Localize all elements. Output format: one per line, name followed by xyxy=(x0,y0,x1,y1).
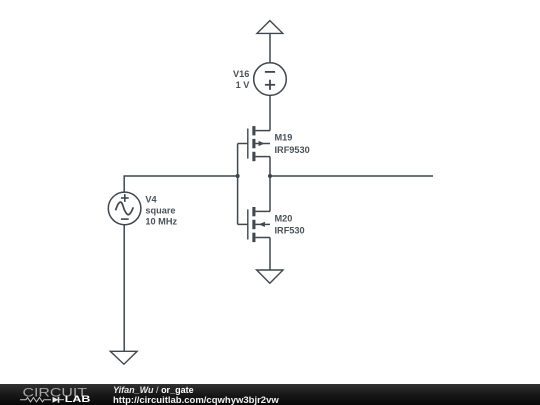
ground (V4) xyxy=(110,351,137,364)
svg-text:square: square xyxy=(145,205,175,215)
svg-text:IRF530: IRF530 xyxy=(275,226,305,236)
wire VCC to V16 xyxy=(269,34,271,63)
wire V16 to M19 drain xyxy=(269,95,271,130)
resistor zigzag xyxy=(20,398,51,402)
svg-text:M20: M20 xyxy=(275,214,293,224)
node: gate junction xyxy=(236,174,240,178)
voltage source V4 xyxy=(108,192,141,225)
transistor M19 (PMOS) xyxy=(238,126,270,161)
label V4 / square / 10 MHz xyxy=(145,194,177,226)
wire V4 to ground xyxy=(123,225,125,352)
label M20 / IRF530 xyxy=(275,214,305,236)
svg-text:V16: V16 xyxy=(233,69,249,79)
label M19 / IRF9530 xyxy=(275,133,310,155)
ground (M20) xyxy=(257,270,283,283)
svg-text:LAB: LAB xyxy=(65,394,91,404)
wire output to right xyxy=(270,175,433,177)
svg-text:1 V: 1 V xyxy=(236,80,251,90)
svg-text:V4: V4 xyxy=(145,194,157,204)
label V16 / 1 V xyxy=(233,69,250,90)
credit text xyxy=(113,385,279,405)
voltage source V16 xyxy=(254,63,287,96)
wire V4 to gate node xyxy=(124,176,237,192)
wire output node to M20 drain xyxy=(269,176,271,211)
wire M19 source to output node xyxy=(269,157,271,176)
wire M20 source to ground xyxy=(269,238,271,270)
CircuitLab logo xyxy=(0,384,100,405)
svg-text:10 MHz: 10 MHz xyxy=(145,216,177,226)
svg-text:M19: M19 xyxy=(275,133,293,143)
footer bar xyxy=(0,384,540,405)
node: output junction xyxy=(268,174,272,178)
svg-text:IRF9530: IRF9530 xyxy=(275,145,310,155)
wire gate bus M19-M20 xyxy=(237,144,239,225)
diode xyxy=(53,397,59,403)
transistor M20 (NMOS) xyxy=(238,207,270,242)
net flag VCC xyxy=(257,21,283,34)
